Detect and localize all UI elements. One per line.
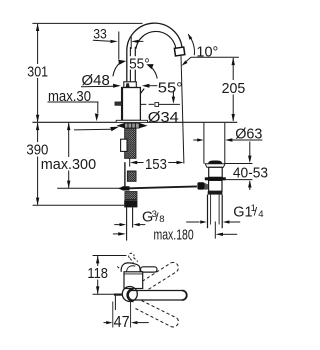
svg-text:Ø34: Ø34 [148, 109, 179, 126]
55° handle arc left [113, 62, 121, 76]
svg-text:8: 8 [159, 214, 164, 225]
riser tube lines [126, 51, 128, 82]
dimension max.300 line [68, 123, 70, 188]
dimension 118 [97, 256, 99, 294]
tailpipe [207, 195, 209, 229]
dimension 390 line [37, 123, 39, 205]
pivot ring [122, 287, 137, 302]
swivel down arrow onto water line [172, 91, 174, 98]
escutcheon base plate [116, 120, 147, 122]
lever housing body [209, 180, 222, 191]
supply pipes [126, 207, 128, 240]
svg-text:33: 33 [93, 26, 107, 42]
svg-text:max.300: max.300 [41, 156, 96, 173]
phantom spout lower (dashed) [136, 301, 179, 327]
body (plan) [124, 272, 143, 289]
horizontal pop-up rod [129, 186, 197, 188]
phantom spout upper (dashed) [138, 262, 179, 292]
threaded shank (hatched) [125, 128, 136, 158]
hose-end reference line [33, 204, 125, 206]
threaded section 3 [125, 192, 137, 200]
spout outer arc [127, 23, 182, 51]
svg-text:55°: 55° [129, 55, 150, 72]
G3/8 dimension arrows [114, 224, 120, 226]
pop-up upper body [209, 167, 223, 177]
pull-rod guide window [121, 139, 127, 151]
flange [205, 164, 225, 168]
G1 1/4 dimension arrows [186, 221, 199, 223]
rod stub left of pivot [114, 294, 122, 296]
47 extension lines [112, 302, 114, 328]
small set screw on body left [115, 102, 122, 106]
svg-text:4: 4 [258, 209, 263, 220]
55° handle arc right [151, 67, 158, 79]
swivel arc piece below leader [137, 89, 144, 98]
deck (counter) line [32, 121, 116, 123]
faucet body [122, 88, 141, 121]
reference line flange top [225, 163, 252, 165]
pull rod [124, 162, 126, 188]
svg-text:40-53: 40-53 [233, 165, 268, 182]
outlet stream reference line [181, 56, 184, 164]
lever ball knob [197, 182, 204, 189]
svg-text:47: 47 [114, 314, 130, 331]
spout tube (plan) [131, 291, 187, 301]
phantom handle (dashed) [117, 253, 138, 269]
plug dome [208, 161, 222, 164]
max.30 deck-thickness leader arrow [74, 128, 111, 131]
spout inner arc [136, 31, 176, 48]
svg-text:55°: 55° [158, 80, 183, 97]
water level dash line [141, 103, 180, 105]
reference line seal level [226, 179, 253, 181]
mounting hardware below deck [125, 123, 140, 128]
svg-text:118: 118 [87, 265, 108, 282]
coupling nut [208, 191, 223, 194]
top extension line (spout top reference) [32, 22, 142, 24]
handle lever [141, 267, 158, 272]
swivel arc right of spout [188, 34, 194, 55]
connection nut block [124, 200, 137, 207]
svg-text:10°: 10° [196, 43, 218, 60]
basin hole extension lines [203, 123, 205, 164]
label 55° (handle) [128, 56, 150, 69]
collar under spout [124, 82, 137, 88]
centerline below shank [129, 158, 131, 166]
33 extension lines [118, 32, 120, 60]
spout left cap inside ring [128, 289, 134, 301]
svg-text:max.180: max.180 [154, 227, 194, 244]
svg-text:205: 205 [222, 80, 246, 97]
dimension 301 line [37, 24, 39, 122]
seal flange [205, 177, 226, 180]
dimension 205 [232, 58, 234, 121]
handle dome [121, 263, 140, 272]
dimension 47 [104, 322, 108, 324]
svg-text:153: 153 [145, 156, 167, 173]
threaded section 2 [127, 171, 136, 181]
118 extension lines [93, 255, 127, 257]
rod clamp [118, 186, 129, 190]
aerator (spout outlet) [174, 47, 184, 56]
pop-up rod level line [57, 187, 129, 189]
svg-text:301: 301 [27, 64, 48, 81]
